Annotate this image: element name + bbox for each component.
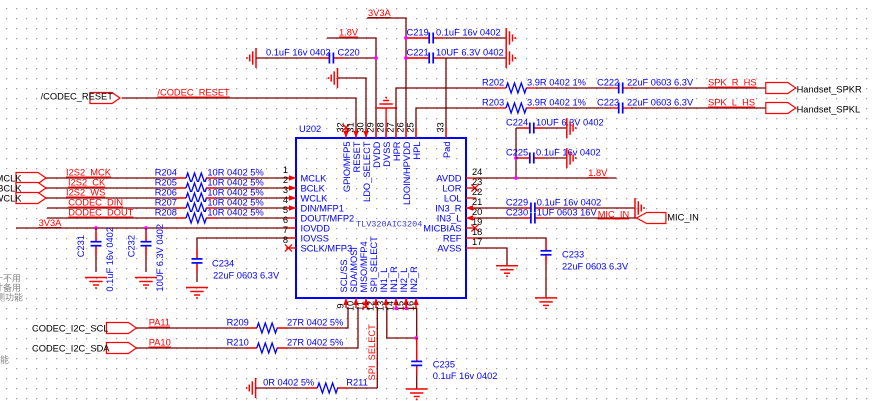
svg-text:CODEC_DIN: CODEC_DIN — [68, 198, 123, 208]
svg-text:AVSS: AVSS — [437, 244, 461, 254]
svg-text:26: 26 — [396, 122, 406, 132]
svg-text:RESET: RESET — [352, 141, 362, 172]
svg-text:I2S2_MCK: I2S2_MCK — [66, 168, 112, 178]
svg-text:22uF 0603 6.3V: 22uF 0603 6.3V — [213, 271, 280, 281]
pin 33 Pad — [436, 122, 453, 158]
port CODEC_I2C_SCL — [32, 323, 136, 334]
svg-text:DOUT/MFP2: DOUT/MFP2 — [301, 214, 355, 224]
svg-text:33: 33 — [436, 122, 446, 132]
wire to Pad pin33 — [445, 58, 447, 138]
svg-text:R205: R205 — [155, 178, 177, 188]
svg-text:测功能: 测功能 — [0, 292, 23, 303]
wire SDA row — [136, 307, 358, 348]
svg-text:2: 2 — [283, 175, 288, 185]
resistor R203 — [482, 98, 586, 115]
ground (left of C220) — [247, 48, 256, 68]
pin 29 DVDD — [366, 122, 383, 168]
svg-text:10R 0402 5%: 10R 0402 5% — [207, 168, 263, 178]
port MCLK — [0, 173, 46, 184]
svg-text:能: 能 — [0, 354, 9, 365]
svg-text:R209: R209 — [227, 318, 249, 328]
pin 11 MISO/MFP4 — [356, 241, 370, 310]
svg-text:PA11: PA11 — [149, 318, 170, 328]
resistor R207 — [155, 198, 264, 215]
capacitor C220 — [266, 48, 360, 65]
svg-text:8: 8 — [283, 235, 288, 245]
ground (right of C219) — [506, 28, 515, 48]
pin 14 IN1_R — [386, 266, 400, 311]
resistor R210 — [227, 338, 344, 355]
net label I2S2_MCK — [66, 168, 112, 178]
pin 22 LOL — [444, 187, 482, 204]
svg-text:REF: REF — [443, 234, 462, 244]
svg-text:6: 6 — [283, 215, 288, 225]
svg-text:U202: U202 — [299, 124, 321, 134]
svg-text:0R 0402 5%: 0R 0402 5% — [263, 378, 314, 388]
svg-text:3V3A: 3V3A — [368, 8, 392, 18]
wire C222 to port — [631, 87, 766, 89]
capacitor C233 — [540, 241, 629, 298]
svg-text:PA10: PA10 — [149, 338, 171, 348]
capacitor C230 — [506, 208, 598, 225]
svg-text:AVDD: AVDD — [436, 174, 461, 184]
pin 5 DOUT/MFP2 — [283, 205, 354, 224]
op-amp U202 body — [296, 138, 466, 298]
pin 18 REF — [443, 227, 482, 244]
svg-text:C222: C222 — [597, 78, 619, 88]
svg-text:CODEC_I2C_SCL: CODEC_I2C_SCL — [32, 324, 108, 334]
pin 15 IN2_L — [396, 268, 410, 311]
junction 3V3A/C221 — [404, 56, 408, 60]
wire C224 row — [516, 127, 567, 129]
pin 13 IN1_L — [376, 268, 390, 311]
net label CODEC_DIN — [68, 198, 123, 208]
pin 16 IN2_R — [406, 266, 420, 311]
capacitor C224 — [506, 118, 604, 135]
resistor R204 — [155, 168, 264, 185]
svg-text:22uF 0603 6.3V: 22uF 0603 6.3V — [627, 98, 694, 108]
wire /CODEC_RESET — [122, 98, 356, 138]
net label SPK_L_HS — [708, 98, 755, 108]
ground (right of C229) — [635, 198, 644, 218]
junction C232 — [144, 226, 148, 230]
svg-text:Handset_SPKR: Handset_SPKR — [797, 85, 862, 95]
svg-text:24: 24 — [472, 167, 482, 177]
power 1.8V (top) — [327, 28, 376, 139]
ground (below AVSS) — [496, 266, 518, 277]
ground (below C231) — [85, 278, 107, 289]
net label DODEC_DOUT — [68, 208, 133, 218]
svg-text:IN1_R: IN1_R — [389, 266, 399, 293]
net label /CODEC_RESET — [157, 88, 230, 98]
capacitor C232 — [127, 224, 165, 292]
resistor R208 — [155, 208, 264, 225]
pin 32 GPIO/MFP5 — [336, 122, 353, 192]
svg-text:R206: R206 — [155, 188, 177, 198]
net label I2S2_CK — [68, 178, 106, 188]
power 1.8V (AVDD) — [588, 168, 608, 178]
wire C220 row — [256, 57, 376, 59]
wire SCL row — [136, 307, 348, 328]
svg-text:25: 25 — [406, 122, 416, 132]
svg-text:3.9R 0402 1%: 3.9R 0402 1% — [527, 98, 586, 108]
svg-text:WCLK: WCLK — [301, 194, 329, 204]
wire CODEC_DIN — [47, 207, 290, 209]
svg-text:HPR: HPR — [392, 141, 402, 161]
svg-text:SDA/MOSI: SDA/MOSI — [349, 247, 359, 292]
ground (right of C224) — [567, 118, 576, 138]
svg-text:C233: C233 — [562, 250, 584, 260]
wire IOVSS to C234 — [197, 238, 296, 282]
svg-text:DODEC_DOUT: DODEC_DOUT — [68, 208, 133, 218]
svg-text:0.1uF 16v 0402: 0.1uF 16v 0402 — [536, 148, 601, 158]
svg-text:R204: R204 — [155, 168, 177, 178]
net label SPK_R_HS — [708, 78, 757, 88]
svg-text:27: 27 — [386, 122, 396, 132]
pin 23 LOR — [442, 177, 482, 194]
svg-text:MISO/MFP4: MISO/MFP4 — [359, 241, 369, 292]
svg-text:寸备用: 寸备用 — [0, 282, 21, 293]
resistor R205 — [155, 178, 264, 195]
resistor R209 — [227, 318, 344, 335]
svg-text:C219: C219 — [407, 28, 429, 38]
pin 17 AVSS — [437, 237, 482, 254]
capacitor C234 — [191, 249, 280, 281]
svg-text:Pad: Pad — [442, 142, 452, 159]
net label SPI_SELECT — [367, 324, 377, 381]
svg-text:IN2_L: IN2_L — [399, 268, 409, 293]
svg-text:I2S2_CK: I2S2_CK — [68, 178, 106, 188]
svg-text:HPL: HPL — [412, 142, 422, 160]
resistor R202 — [482, 78, 586, 95]
ground (to LDO_SELECT pin 30) — [329, 68, 367, 138]
net label PA11 — [149, 318, 170, 328]
resistor R211 — [263, 378, 368, 395]
svg-text:SPI_SELECT: SPI_SELECT — [369, 236, 379, 293]
wire R202 to C222 — [536, 87, 611, 89]
svg-text:IOVSS: IOVSS — [301, 234, 329, 244]
wire IN3_L to C230 — [476, 217, 637, 219]
pin 12 SPI_SELECT — [366, 236, 380, 311]
svg-text:22: 22 — [472, 187, 482, 197]
svg-text:MICBIAS: MICBIAS — [423, 224, 461, 234]
junction pin15 — [405, 298, 409, 310]
wire I2S2_CK — [46, 187, 290, 189]
svg-text:IN3_R: IN3_R — [435, 204, 462, 214]
svg-text:10R 0402 5%: 10R 0402 5% — [207, 208, 263, 218]
svg-text:C230: C230 — [506, 208, 528, 218]
svg-text:22uF 0603 6.3V: 22uF 0603 6.3V — [562, 262, 629, 272]
pin 27 HPR — [386, 122, 403, 161]
svg-text:I2S2_WS: I2S2_WS — [66, 188, 105, 198]
svg-text:DVSS: DVSS — [382, 142, 392, 167]
pin 25 HPL — [406, 122, 423, 159]
pin 19 MICBIAS — [423, 217, 482, 234]
svg-text:0.1uF 16v 0402: 0.1uF 16v 0402 — [266, 48, 331, 58]
svg-text:0.1uF 16v 0402: 0.1uF 16v 0402 — [433, 371, 498, 381]
svg-text:10: 10 — [346, 301, 356, 311]
wire REF to C233 — [476, 238, 546, 248]
svg-text:18: 18 — [472, 227, 482, 237]
wire IN2 bus — [396, 307, 417, 338]
svg-text:1.8V: 1.8V — [339, 28, 359, 38]
svg-text:10UF 6.3V 0402: 10UF 6.3V 0402 — [155, 224, 165, 292]
port CODEC_I2C_SDA — [32, 343, 136, 354]
pin 4 DIN/MFP1 — [283, 195, 344, 214]
svg-text:GPIO/MFP5: GPIO/MFP5 — [342, 142, 352, 193]
svg-text:DIN/MFP1: DIN/MFP1 — [301, 204, 344, 214]
ground (below C233) — [535, 298, 557, 309]
wire AVDD to 1.8V — [476, 177, 617, 179]
capacitor C231 — [76, 227, 115, 292]
svg-text:22uF 0603 6.3V: 22uF 0603 6.3V — [627, 78, 694, 88]
capacitor C222 — [597, 78, 694, 95]
svg-text:SCL/SS: SCL/SS — [339, 259, 349, 292]
svg-text:MIC_IN: MIC_IN — [598, 210, 630, 220]
svg-text:27R 0402 5%: 27R 0402 5% — [287, 318, 343, 328]
ground (right of C225) — [567, 148, 576, 168]
resistor R206 — [155, 188, 264, 205]
wire C221 row — [406, 57, 506, 59]
svg-text:1UF 0603 16V: 1UF 0603 16V — [537, 208, 598, 218]
wire I2S2_MCK — [46, 177, 290, 179]
svg-text:3.9R 0402 1%: 3.9R 0402 1% — [527, 78, 586, 88]
svg-text:IOVDD: IOVDD — [301, 224, 331, 234]
wire C219 row — [406, 37, 506, 39]
wire AVSS to ground — [476, 248, 507, 266]
svg-text:R210: R210 — [227, 338, 249, 348]
svg-text:WCLK: WCLK — [0, 194, 22, 204]
svg-text:5: 5 — [283, 205, 288, 215]
wire SPI_SELECT — [376, 307, 378, 388]
wire IN1 bus — [387, 307, 416, 338]
svg-text:十不用: 十不用 — [0, 273, 21, 284]
svg-text:SPI_SELECT: SPI_SELECT — [367, 324, 377, 381]
gray note 4 — [0, 354, 9, 365]
svg-text:IN1_L: IN1_L — [379, 268, 389, 293]
svg-text:R203: R203 — [482, 98, 504, 108]
svg-text:LOL: LOL — [444, 194, 462, 204]
capacitor C221 — [406, 48, 504, 65]
svg-text:SCLK/MFP3: SCLK/MFP3 — [301, 244, 353, 254]
svg-text:MIC_IN: MIC_IN — [667, 213, 699, 223]
svg-text:/CODEC_RESET: /CODEC_RESET — [157, 88, 230, 98]
wire DODEC_DOUT — [47, 217, 290, 219]
svg-text:3: 3 — [283, 185, 288, 195]
pin 28 DVSS — [376, 122, 393, 167]
wire R203 to C223 — [536, 107, 611, 109]
pin 1 MCLK — [283, 165, 327, 184]
wire C223 to port — [631, 107, 766, 109]
svg-text:0.1uF 16v 0402: 0.1uF 16v 0402 — [537, 198, 602, 208]
wire HPR to R202 — [396, 88, 496, 138]
svg-text:R207: R207 — [155, 198, 177, 208]
wire I2S2_WS — [46, 197, 290, 199]
port Handset_SPKL — [766, 103, 860, 115]
wire IN3_R to C229 — [476, 207, 635, 209]
pin 6 IOVDD — [283, 215, 330, 234]
port MIC_IN — [637, 213, 699, 224]
svg-text:TLV320AIC3204: TLV320AIC3204 — [356, 220, 422, 230]
port WCLK — [0, 193, 46, 204]
junction C235 — [414, 336, 418, 340]
svg-text:28: 28 — [376, 122, 386, 132]
svg-text:4: 4 — [283, 195, 288, 205]
svg-text:1: 1 — [283, 165, 288, 175]
svg-text:IN3_L: IN3_L — [437, 214, 462, 224]
svg-text:SPK_L_HS: SPK_L_HS — [708, 98, 755, 108]
pin 26 LDOIN/HPVDD — [396, 122, 413, 205]
svg-text:10R 0402 5%: 10R 0402 5% — [207, 198, 263, 208]
gray note 1 — [0, 273, 21, 284]
gray note 3 — [0, 292, 23, 303]
svg-text:10R 0402 5%: 10R 0402 5% — [207, 188, 263, 198]
pin 10 SDA/MOSI — [346, 247, 360, 311]
power 3V3A (rail to IOVDD) — [16, 218, 296, 228]
svg-text:C234: C234 — [212, 259, 234, 269]
wire R211 row — [256, 387, 378, 389]
net label MIC_IN — [598, 210, 630, 220]
junction pin14 — [394, 307, 398, 311]
svg-text:3V3A: 3V3A — [39, 218, 63, 228]
pin 30 LDO_SELECT — [356, 122, 373, 202]
svg-text:LDOIN/HPVDD: LDOIN/HPVDD — [402, 141, 412, 205]
svg-text:Handset_SPKL: Handset_SPKL — [797, 105, 861, 115]
power 3V3A (top) — [367, 8, 406, 138]
junction C225 branch — [514, 156, 518, 160]
svg-text:29: 29 — [366, 122, 376, 132]
gray note 2 — [0, 282, 21, 293]
svg-text:CODEC_I2C_SDA: CODEC_I2C_SDA — [32, 344, 110, 354]
svg-text:IN2_R: IN2_R — [409, 266, 419, 293]
net label I2S2_WS — [66, 188, 105, 198]
capacitor C225 — [506, 148, 601, 165]
pin 8 SCLK/MFP3 — [283, 235, 352, 254]
svg-text:9: 9 — [336, 303, 346, 308]
junction 3V3A/C219 — [404, 36, 408, 40]
wire C224/C225 branch — [515, 128, 517, 178]
pin 3 WCLK — [283, 185, 328, 204]
svg-text:C221: C221 — [407, 48, 429, 58]
ground (below C232) — [135, 278, 157, 289]
svg-text:BCLK: BCLK — [301, 184, 326, 194]
svg-text:/CODEC_RESET: /CODEC_RESET — [41, 92, 114, 102]
svg-text:C223: C223 — [597, 98, 619, 108]
svg-text:C224: C224 — [506, 118, 528, 128]
svg-text:10UF 6.3V 0402: 10UF 6.3V 0402 — [436, 48, 504, 58]
designator U202 — [299, 124, 321, 134]
svg-text:C229: C229 — [506, 198, 528, 208]
pin 9 SCL/SS — [336, 259, 350, 308]
svg-text:R211: R211 — [346, 378, 368, 388]
pin 2 BCLK — [283, 175, 326, 194]
port Handset_SPKR — [766, 83, 862, 95]
svg-text:C235: C235 — [433, 360, 455, 370]
svg-text:SPK_R_HS: SPK_R_HS — [708, 78, 757, 88]
junction C231 — [94, 226, 98, 230]
svg-text:7: 7 — [283, 225, 288, 235]
junction AVDD branch — [514, 176, 518, 180]
svg-text:DVDD: DVDD — [372, 141, 382, 168]
port /CODEC_RESET — [41, 92, 120, 104]
svg-text:12: 12 — [366, 301, 376, 311]
capacitor C229 — [506, 198, 601, 215]
wire C225 row — [516, 157, 567, 159]
port BCLK — [0, 183, 46, 194]
svg-text:C220: C220 — [338, 48, 360, 58]
svg-text:21: 21 — [472, 197, 482, 207]
svg-text:R208: R208 — [155, 208, 177, 218]
pin 31 RESET — [346, 122, 363, 172]
svg-text:0.1uF 16v 0402: 0.1uF 16v 0402 — [105, 227, 115, 292]
svg-text:R202: R202 — [482, 78, 504, 88]
svg-text:LOR: LOR — [442, 184, 461, 194]
wire HPL to R203 — [416, 108, 496, 138]
ground (right of C221) — [506, 48, 515, 68]
ground (below C235) — [406, 389, 428, 400]
pin 21 IN3_R — [435, 197, 482, 214]
value TLV320AIC3204 — [356, 220, 422, 230]
pin 24 AVDD — [436, 167, 482, 184]
svg-text:MCLK: MCLK — [301, 174, 328, 184]
svg-text:C232: C232 — [127, 235, 137, 257]
capacitor C223 — [597, 98, 694, 115]
pin 20 IN3_L — [437, 207, 483, 224]
pin 7 IOVSS — [283, 225, 329, 244]
ground (below C234) — [186, 288, 208, 299]
svg-text:27R 0402 5%: 27R 0402 5% — [287, 338, 343, 348]
net label PA10 — [149, 338, 171, 348]
svg-text:1.8V: 1.8V — [588, 168, 608, 178]
svg-text:10R 0402 5%: 10R 0402 5% — [207, 178, 263, 188]
svg-text:C225: C225 — [506, 148, 528, 158]
svg-text:C231: C231 — [76, 235, 86, 257]
svg-text:LDO_SELECT: LDO_SELECT — [362, 141, 372, 202]
capacitor C219 — [406, 28, 500, 45]
junction 1.8V/C220 — [374, 56, 378, 60]
capacitor C235 — [411, 338, 498, 389]
ground (left of R211) — [247, 378, 256, 398]
svg-text:11: 11 — [356, 301, 366, 311]
svg-text:0.1uF 16v 0402: 0.1uF 16v 0402 — [436, 28, 501, 38]
ground (above DVSS pin 28) — [375, 98, 397, 139]
